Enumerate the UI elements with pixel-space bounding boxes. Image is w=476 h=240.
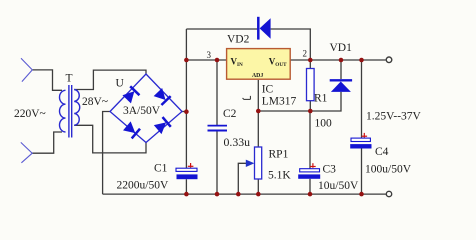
wire top rail right segment with corner down to output row (271, 29, 311, 60)
node R1 bottom (308, 109, 313, 114)
svg-text:R1: R1 (314, 92, 328, 104)
wire R1 top lead (309, 60, 311, 69)
bridge diode top-right (153, 88, 170, 105)
transformer T core (69, 85, 72, 138)
wire C4 top lead (361, 60, 363, 138)
transformer T secondary winding (74, 90, 80, 126)
wire C1 bottom lead (185, 179, 187, 194)
terminal arrow input lower (21, 142, 32, 162)
wire RP1 top lead (257, 111, 259, 147)
diode VD2 (258, 17, 270, 40)
pin label Vin (231, 57, 244, 69)
capacitor C4 plates (350, 138, 371, 148)
wire RP1 bottom lead (257, 179, 259, 194)
svg-text:2: 2 (303, 49, 308, 59)
svg-text:IC: IC (262, 84, 274, 96)
svg-text:220V~: 220V~ (14, 108, 46, 120)
node C4 top (359, 58, 364, 63)
capacitor C1 plates (176, 168, 198, 179)
capacitor C2 plates (208, 126, 228, 131)
node ADJ (256, 109, 261, 114)
node output terminal minus (386, 191, 391, 196)
wire C2 branch upper (216, 60, 218, 125)
node Vout / top rail (308, 58, 313, 63)
node bridge plus (184, 109, 189, 114)
svg-text:C2: C2 (223, 108, 237, 120)
potentiometer RP1 wiper arrow (246, 160, 255, 167)
svg-text:C1: C1 (154, 162, 168, 174)
node rail C4 (359, 192, 364, 197)
svg-text:OUT: OUT (275, 62, 287, 68)
wire RP1 wiper to bottom rail (238, 163, 248, 194)
svg-text:LM317: LM317 (262, 96, 297, 108)
regulator IC LM317 box (227, 49, 291, 80)
wire C2 branch lower (216, 131, 218, 194)
capacitor C3 plates (298, 169, 320, 179)
wire secondary bottom to bridge bottom vertex (74, 125, 146, 153)
wire C4 bottom lead (361, 149, 363, 195)
bridge diode bottom-right (153, 117, 170, 134)
svg-text:5.1K: 5.1K (268, 170, 291, 182)
node VD1 top (339, 58, 344, 63)
node Vin rail / main vertical (184, 58, 189, 63)
wire C3 bottom lead (309, 179, 311, 194)
svg-text:ADJ: ADJ (252, 73, 263, 79)
svg-text:10u/50V: 10u/50V (318, 180, 359, 192)
svg-text:VD2: VD2 (227, 34, 250, 46)
node rail C2 (215, 192, 220, 197)
svg-text:100: 100 (315, 118, 333, 130)
wire main unregulated vertical (185, 29, 187, 168)
node rail RP1 (256, 192, 261, 197)
node rail C1 (184, 192, 189, 197)
pin label Vout (269, 57, 287, 69)
capacitor C1 polarity plus (188, 163, 194, 168)
svg-text:28V~: 28V~ (82, 96, 108, 108)
bridge diode top-left (122, 86, 139, 103)
svg-text:3: 3 (207, 50, 212, 60)
node output terminal plus (386, 57, 392, 63)
svg-text:3A/50V: 3A/50V (123, 105, 161, 117)
svg-text:VD1: VD1 (330, 42, 353, 54)
node rail C3 (308, 192, 313, 197)
capacitor C3 polarity plus (310, 163, 316, 168)
svg-text:2200u/50V: 2200u/50V (117, 180, 169, 192)
wire VD1 bottom to ADJ node (310, 92, 341, 111)
diode VD1 (330, 80, 352, 92)
wire bridge right vertex to main vertical (182, 111, 187, 113)
wire upper input to transformer primary top (32, 70, 62, 90)
capacitor C4 polarity plus (362, 133, 368, 138)
wire Vin row (186, 59, 226, 61)
svg-text:C3: C3 (323, 164, 337, 176)
svg-text:0.33u: 0.33u (224, 135, 251, 149)
wire ADJ row (258, 110, 310, 112)
svg-text:RP1: RP1 (269, 149, 289, 161)
bridge diode bottom-left (123, 121, 140, 138)
svg-text:100u/50V: 100u/50V (365, 163, 412, 175)
wire bridge left vertex to bottom rail (103, 112, 111, 195)
wire lower input to transformer primary bottom (32, 132, 62, 153)
bridge rectifier U diamond edges (110, 74, 182, 143)
svg-text:C4: C4 (375, 146, 389, 158)
node C2 top (215, 58, 220, 63)
wire top rail left segment (186, 28, 258, 30)
svg-text:1.25V--37V: 1.25V--37V (366, 111, 422, 123)
terminal arrow input upper (21, 58, 32, 81)
pin number 1 (243, 96, 251, 100)
junction dots (184, 58, 364, 197)
node rail wiper (236, 192, 241, 197)
wire ADJ pin down from regulator (257, 80, 259, 111)
resistor R1 body (307, 69, 315, 101)
wire secondary top to bridge top vertex (74, 70, 146, 89)
potentiometer RP1 body (255, 147, 262, 179)
wire C3 top lead (309, 111, 311, 169)
wire Vout output row (290, 59, 385, 61)
wire VD1 branch top (340, 60, 342, 79)
transformer T primary winding (60, 90, 66, 132)
wire R1 bottom lead (309, 101, 311, 111)
svg-text:T: T (66, 72, 73, 84)
wire bottom ground rail (103, 193, 387, 195)
svg-text:U: U (116, 78, 125, 90)
svg-text:IN: IN (237, 62, 243, 68)
